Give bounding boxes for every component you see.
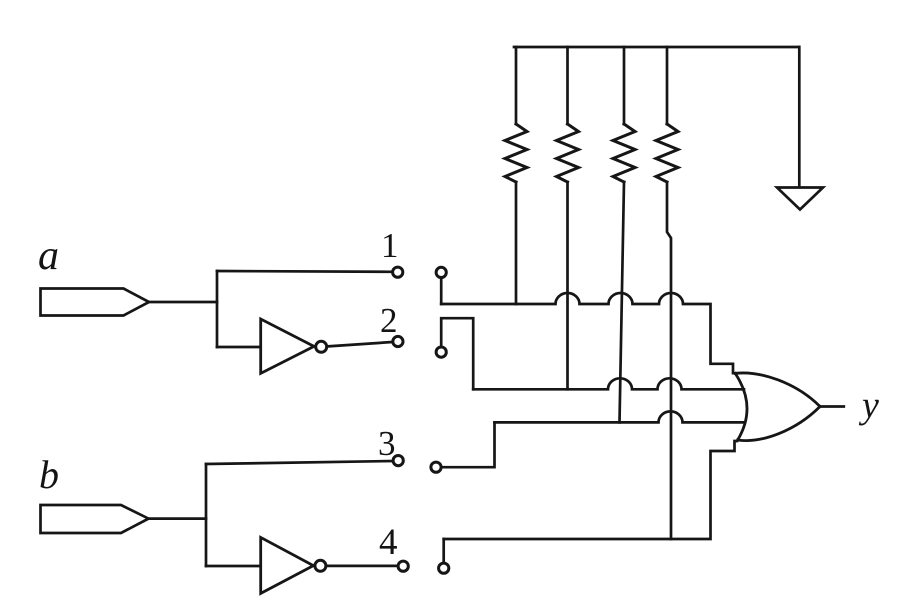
wire: R4 lead to row 4 [667,182,671,539]
label 4 [379,522,398,563]
resistor R3 [613,124,635,182]
svg-text:4: 4 [379,522,398,563]
resistor R4 [656,124,678,182]
svg-text:a: a [38,233,59,279]
terminal 3 [393,456,403,466]
label y [858,385,879,427]
wire: rail drop to R3 [623,47,626,124]
svg-text:y: y [858,385,879,427]
input connector b [41,505,149,533]
wire: contact 4R riser [442,539,445,563]
or-gate U3 [735,373,820,441]
wire: contact 2R riser [441,318,473,389]
wire row 4 (contact 4 to OR input D) [444,441,737,539]
terminal 4 [398,561,408,571]
input connector a [41,289,150,316]
svg-text:1: 1 [381,226,399,265]
wire row 2 (contact 2 to OR input B) [473,378,744,389]
wire: a to inverter U1 [217,346,260,349]
terminal 1 [393,267,403,277]
wire: a to terminal 1 [217,270,393,273]
wire: a stem [149,301,217,304]
svg-text:b: b [39,452,59,497]
label 3 [378,424,396,463]
wire: R1 lead to row 1 [515,182,518,304]
wire: rail drop to R2 [566,47,569,124]
wire: rail drop to R4 [666,47,669,124]
svg-text:2: 2 [380,301,398,340]
ground [777,188,823,210]
top power rail [514,46,799,49]
wire: b to terminal 3 [206,461,393,464]
wire row 1 (contact 1 to OR input A) [441,293,736,373]
wire: contact 1R drop [440,278,443,304]
terminal 2 [393,336,403,346]
wire: U2 output to terminal 4 [327,565,398,568]
label 2 [380,301,398,340]
contact 4R [439,563,449,573]
wire: R3 lead to row 3 [620,182,625,422]
resistor R1 [505,124,527,182]
contact 3R [431,462,441,472]
wire: b stem [149,517,207,520]
wire: b to inverter U2 [206,565,260,568]
wire: OR output [820,405,844,408]
wire: a branch vertical [216,271,219,347]
wire row 3 (contact 3 to OR input C) [495,411,744,422]
inverter U2 [261,537,326,593]
wire: rail drop to R1 [515,47,518,124]
wire: contact 3R riser [441,422,494,467]
label a [38,233,59,279]
inverter U1 [261,319,327,373]
resistor R2 [557,124,579,182]
label b [39,452,59,497]
wire: U1 output to terminal 2 [328,342,393,346]
wire: R2 lead to row 2 [566,182,569,389]
wire: b branch vertical [205,464,208,566]
contact 1R [436,267,446,277]
label 1 [381,226,399,265]
wire: rail to ground [798,47,801,187]
contact 2R [436,347,446,357]
